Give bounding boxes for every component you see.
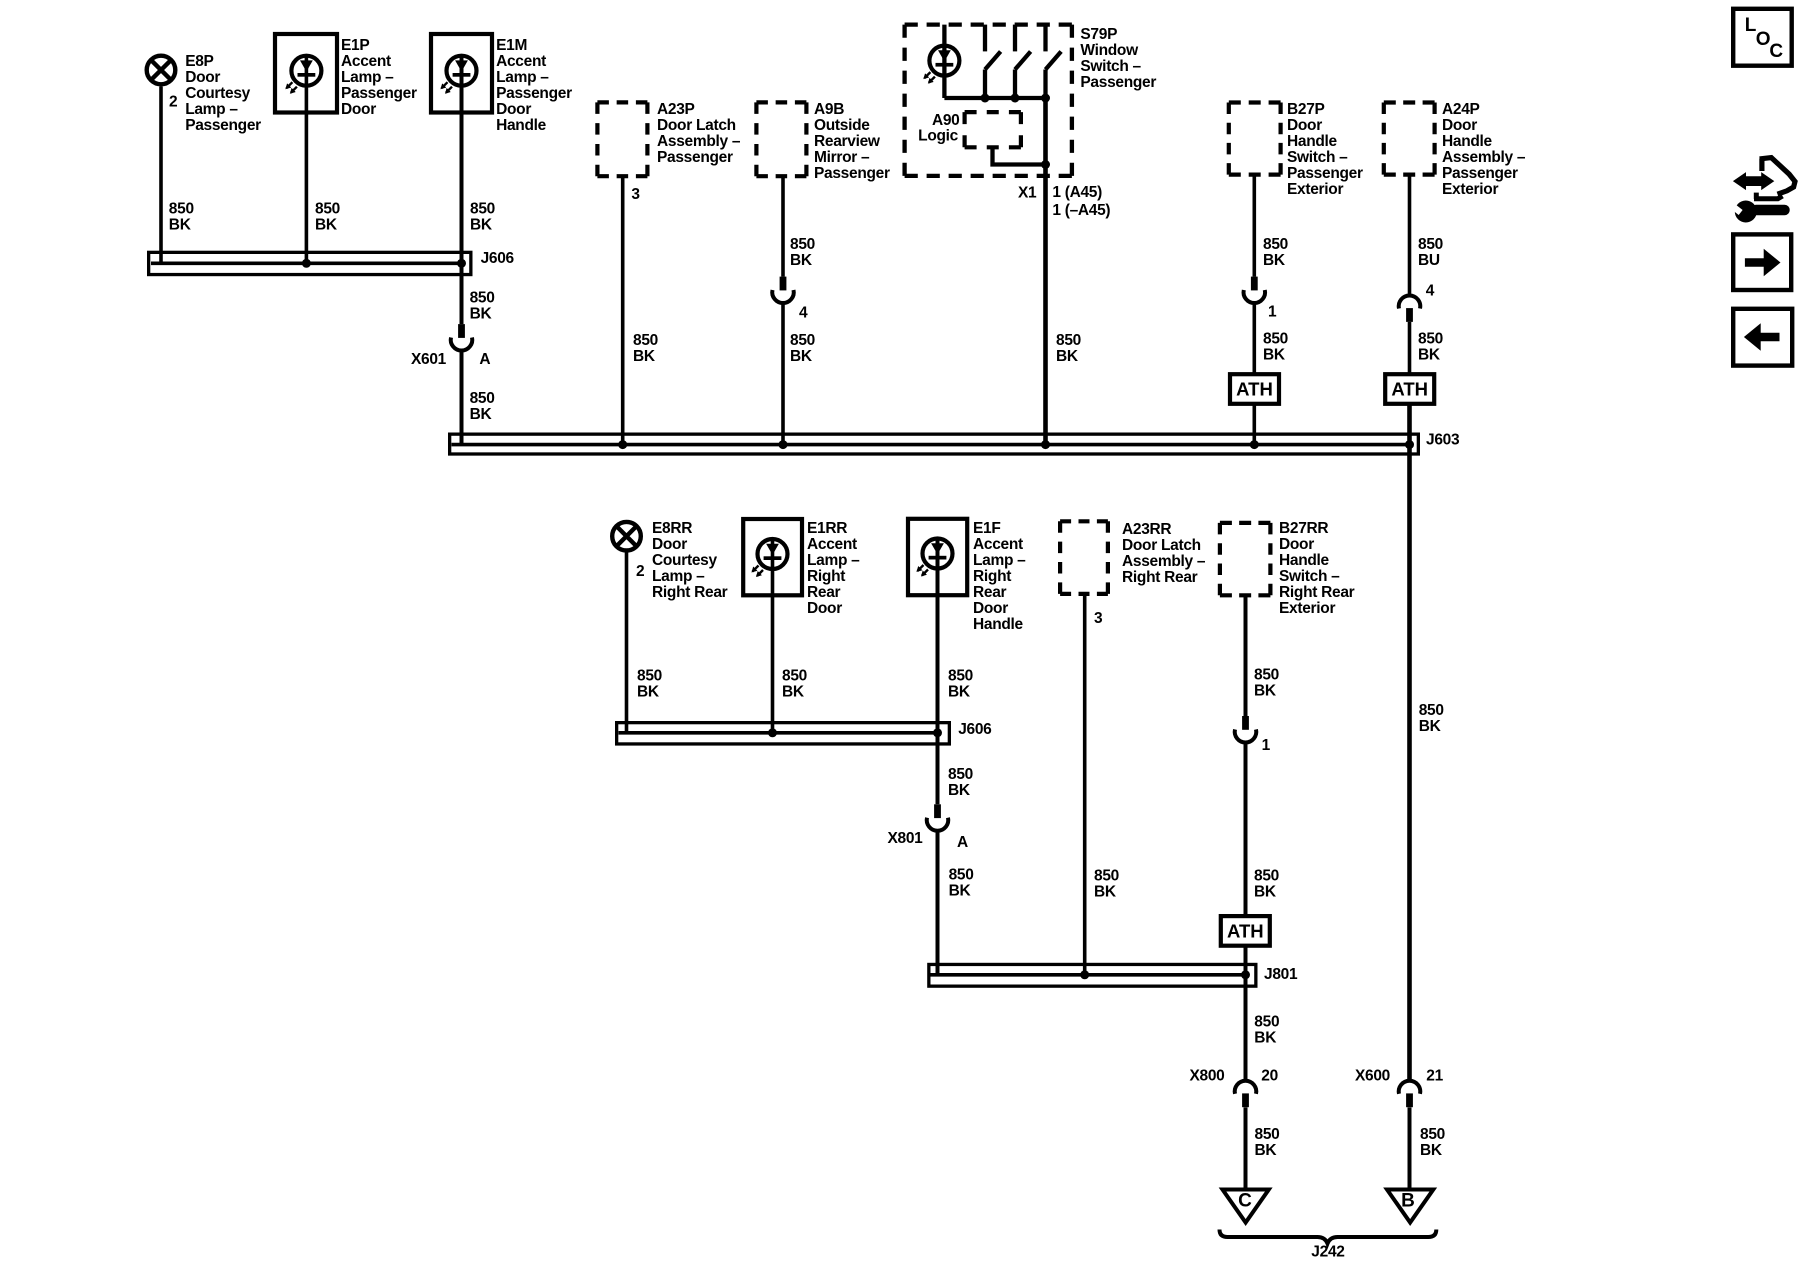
svg-text:850BK: 850BK bbox=[470, 290, 495, 323]
wire E1F through J606 to X801 bbox=[936, 537, 940, 804]
wire B27RR upper bbox=[1244, 595, 1248, 716]
svg-text:850BK: 850BK bbox=[470, 201, 495, 234]
junction dot bbox=[779, 440, 788, 449]
svg-text:2: 2 bbox=[636, 563, 644, 580]
switch 2 S79P bbox=[1015, 25, 1031, 99]
box A24P Door Handle Assembly - Passenger Exterior (dashed) bbox=[1384, 103, 1435, 175]
box B27RR Door Handle Switch - Right Rear Exterior (dashed) bbox=[1220, 523, 1271, 595]
wire A24P mid bbox=[1408, 322, 1412, 374]
J801 internal bus wire bbox=[931, 973, 1248, 977]
box B27P Door Handle Switch - Passenger Exterior (dashed) bbox=[1229, 103, 1281, 175]
junction dot bbox=[302, 259, 311, 268]
svg-text:2: 2 bbox=[169, 94, 177, 111]
svg-text:X800: X800 bbox=[1190, 1068, 1225, 1085]
connector pin 1 B27P bbox=[1244, 277, 1266, 303]
LED E1P bbox=[286, 56, 321, 93]
svg-text:A: A bbox=[479, 351, 490, 368]
wire E8P to J606 bbox=[159, 87, 163, 264]
splice pack J606 (row 1) bbox=[149, 252, 471, 274]
wire A24P upper bbox=[1408, 175, 1412, 295]
svg-text:B27RRDoorHandleSwitch –Right R: B27RRDoorHandleSwitch –Right RearExterio… bbox=[1279, 520, 1355, 617]
svg-text:E1MAccentLamp –PassengerDoorHa: E1MAccentLamp –PassengerDoorHandle bbox=[496, 37, 572, 134]
svg-text:850BK: 850BK bbox=[1418, 331, 1443, 364]
svg-text:850BK: 850BK bbox=[1094, 868, 1119, 901]
junction dot bbox=[1041, 440, 1050, 449]
wire E1P to J606 bbox=[305, 54, 309, 263]
wire X600 to grommet B bbox=[1408, 1107, 1412, 1189]
svg-text:A23RRDoor LatchAssembly –Right: A23RRDoor LatchAssembly –Right Rear bbox=[1122, 521, 1206, 586]
svg-text:850BU: 850BU bbox=[1418, 236, 1443, 269]
svg-text:850BK: 850BK bbox=[790, 332, 815, 365]
wire E1RR to J606 bbox=[771, 538, 775, 733]
connector X600 bbox=[1399, 1081, 1421, 1107]
wire S79P LED branch bbox=[942, 25, 946, 98]
junction dot bbox=[1405, 440, 1414, 449]
LED E1M bbox=[442, 56, 477, 93]
box E1M Accent Lamp - Passenger Door Handle bbox=[431, 34, 492, 113]
wire B27RR mid bbox=[1244, 743, 1248, 916]
switch 3 S79P bbox=[1046, 25, 1062, 99]
svg-text:850BK: 850BK bbox=[949, 867, 974, 900]
wire B27P upper bbox=[1253, 175, 1257, 277]
junction dot bbox=[1241, 970, 1250, 979]
svg-text:E8RRDoorCourtesyLamp –Right Re: E8RRDoorCourtesyLamp –Right Rear bbox=[652, 520, 728, 601]
fuse ATH (B27RR) bbox=[1221, 916, 1270, 946]
svg-text:1 (–A45): 1 (–A45) bbox=[1052, 202, 1110, 219]
S79P internal bus wire bbox=[944, 96, 1045, 100]
service information icon (double arrow, outline arrow, wrench) bbox=[1725, 158, 1795, 223]
wire E8RR to J606 bbox=[625, 553, 629, 733]
junction dot bbox=[1041, 160, 1050, 169]
wire X801 to J801 bbox=[936, 831, 940, 975]
svg-text:850BK: 850BK bbox=[470, 390, 495, 423]
svg-text:850BK: 850BK bbox=[1263, 331, 1288, 364]
svg-text:850BK: 850BK bbox=[1254, 1013, 1279, 1046]
switch 1 S79P bbox=[985, 25, 1001, 99]
fuse ATH (B27P) bbox=[1230, 374, 1279, 404]
svg-text:J606: J606 bbox=[481, 250, 515, 267]
fuse ATH (A24P) bbox=[1385, 374, 1434, 404]
svg-text:A24PDoorHandleAssembly –Passen: A24PDoorHandleAssembly –PassengerExterio… bbox=[1442, 101, 1526, 198]
back arrow box bbox=[1733, 309, 1792, 366]
connector pin 1 B27RR bbox=[1235, 716, 1257, 742]
svg-text:E1RRAccentLamp –RightRearDoor: E1RRAccentLamp –RightRearDoor bbox=[807, 520, 860, 617]
svg-text:A9BOutsideRearviewMirror –Pass: A9BOutsideRearviewMirror –Passenger bbox=[814, 101, 890, 182]
svg-text:S79PWindowSwitch –Passenger: S79PWindowSwitch –Passenger bbox=[1080, 26, 1156, 91]
svg-text:850BK: 850BK bbox=[1056, 332, 1081, 365]
svg-text:4: 4 bbox=[1426, 283, 1435, 300]
connector pin 4 A24P bbox=[1399, 295, 1421, 321]
LED S79P bbox=[924, 46, 959, 83]
grommet B bbox=[1387, 1190, 1433, 1223]
svg-text:J603: J603 bbox=[1426, 432, 1460, 449]
connector pin 4 A9B bbox=[772, 277, 794, 303]
box A23RR Door Latch Assembly - Right Rear (dashed) bbox=[1060, 521, 1108, 594]
svg-text:850BK: 850BK bbox=[169, 201, 194, 234]
box E1RR Accent Lamp - Right Rear Door bbox=[743, 519, 802, 595]
box A9B Outside Rearview Mirror - Passenger (dashed) bbox=[756, 102, 806, 176]
junction dot bbox=[981, 94, 990, 103]
svg-text:X600: X600 bbox=[1355, 1068, 1390, 1085]
svg-text:J801: J801 bbox=[1264, 966, 1298, 983]
svg-text:A90: A90 bbox=[932, 112, 960, 129]
svg-text:E1FAccentLamp –RightRearDoorHa: E1FAccentLamp –RightRearDoorHandle bbox=[973, 520, 1026, 633]
svg-text:Logic: Logic bbox=[918, 128, 959, 145]
J603 internal bus wire bbox=[452, 443, 1412, 447]
junction dot bbox=[933, 728, 942, 737]
J606 row2 internal bus wire bbox=[619, 731, 941, 735]
wire E1M through J606 to X601 bbox=[460, 54, 464, 324]
svg-text:C: C bbox=[1238, 1191, 1252, 1212]
wire A90 output bbox=[993, 147, 1046, 164]
svg-text:O: O bbox=[1756, 29, 1771, 50]
wire X800 to grommet C bbox=[1244, 1107, 1248, 1189]
wire B27RR through J801 down to X800 bbox=[1244, 946, 1248, 1080]
wire B27P mid bbox=[1253, 304, 1257, 375]
box A90 Logic (dashed) bbox=[965, 112, 1021, 147]
box A23P Door Latch Assembly - Passenger (dashed) bbox=[597, 102, 647, 176]
svg-text:850BK: 850BK bbox=[315, 201, 340, 234]
LED E1RR bbox=[753, 539, 788, 576]
svg-text:20: 20 bbox=[1261, 1068, 1278, 1085]
svg-text:850BK: 850BK bbox=[1254, 868, 1279, 901]
svg-text:850BK: 850BK bbox=[1254, 667, 1279, 700]
svg-text:850BK: 850BK bbox=[790, 236, 815, 269]
svg-text:X801: X801 bbox=[888, 830, 924, 847]
wire A9B lower to J603 bbox=[781, 304, 785, 445]
svg-text:850BK: 850BK bbox=[782, 668, 807, 701]
splice pack J606 (row 2) bbox=[617, 723, 950, 744]
junction dot bbox=[1041, 94, 1050, 103]
box E1F Accent Lamp - Right Rear Door Handle bbox=[908, 519, 967, 595]
svg-text:C: C bbox=[1769, 41, 1783, 62]
LED E1F bbox=[918, 539, 953, 576]
svg-text:E1PAccentLamp –PassengerDoor: E1PAccentLamp –PassengerDoor bbox=[341, 37, 417, 118]
junction dot bbox=[457, 259, 466, 268]
wire A9B upper bbox=[781, 176, 785, 276]
svg-text:850BK: 850BK bbox=[633, 332, 658, 365]
svg-text:850BK: 850BK bbox=[1255, 1126, 1280, 1159]
box S79P Window Switch - Passenger (dashed) bbox=[905, 25, 1072, 176]
svg-text:J242: J242 bbox=[1311, 1244, 1344, 1261]
svg-text:850BK: 850BK bbox=[948, 668, 973, 701]
svg-text:B: B bbox=[1401, 1191, 1415, 1212]
wire A23RR to J801 bbox=[1083, 594, 1087, 975]
svg-text:A: A bbox=[957, 834, 968, 851]
svg-text:1: 1 bbox=[1262, 737, 1271, 754]
svg-text:4: 4 bbox=[799, 305, 808, 322]
junction dot bbox=[768, 728, 777, 737]
svg-text:21: 21 bbox=[1426, 1068, 1443, 1085]
svg-text:E8PDoorCourtesyLamp –Passenger: E8PDoorCourtesyLamp –Passenger bbox=[185, 53, 261, 134]
connector X800 bbox=[1235, 1081, 1257, 1107]
junction dot bbox=[1011, 94, 1020, 103]
wire S79P X1 main feed to J603 bbox=[1043, 98, 1048, 445]
svg-text:850BK: 850BK bbox=[948, 766, 973, 799]
svg-text:A23PDoor LatchAssembly –Passen: A23PDoor LatchAssembly –Passenger bbox=[657, 101, 741, 166]
svg-text:850BK: 850BK bbox=[1420, 1126, 1445, 1159]
svg-text:B27PDoorHandleSwitch –Passenge: B27PDoorHandleSwitch –PassengerExterior bbox=[1287, 101, 1363, 198]
svg-text:3: 3 bbox=[631, 186, 640, 203]
J606 internal bus wire bbox=[151, 261, 464, 265]
splice pack J603 bbox=[450, 434, 1419, 454]
connector X801 bbox=[927, 804, 949, 830]
junction dot bbox=[618, 440, 627, 449]
grommet C bbox=[1223, 1190, 1269, 1223]
connector X601 bbox=[451, 324, 473, 350]
wire A24P main feed through J603 down to X600 bbox=[1407, 404, 1412, 1080]
svg-text:1: 1 bbox=[1268, 304, 1277, 321]
lamp E8RR Door Courtesy Lamp - Right Rear bbox=[612, 522, 641, 551]
LOC info box bbox=[1733, 9, 1792, 66]
wire A23P to J603 bbox=[621, 176, 625, 444]
svg-text:850BK: 850BK bbox=[1263, 236, 1288, 269]
forward arrow box bbox=[1733, 234, 1791, 290]
svg-text:1 (A45): 1 (A45) bbox=[1052, 184, 1102, 201]
brace J242 bbox=[1220, 1230, 1437, 1244]
splice pack J801 bbox=[929, 964, 1256, 986]
wire B27P to J603 bbox=[1253, 404, 1257, 445]
svg-text:850BK: 850BK bbox=[637, 668, 662, 701]
svg-text:X601: X601 bbox=[411, 351, 447, 368]
svg-text:3: 3 bbox=[1094, 610, 1103, 627]
lamp E8P Door Courtesy Lamp - Passenger bbox=[147, 56, 176, 85]
box E1P Accent Lamp - Passenger Door bbox=[275, 34, 337, 113]
svg-text:X1: X1 bbox=[1018, 184, 1037, 201]
junction dot bbox=[1080, 970, 1089, 979]
svg-text:850BK: 850BK bbox=[1419, 702, 1444, 735]
svg-text:J606: J606 bbox=[958, 721, 992, 738]
wire X601 to J603 bbox=[460, 351, 464, 445]
junction dot bbox=[1250, 440, 1259, 449]
